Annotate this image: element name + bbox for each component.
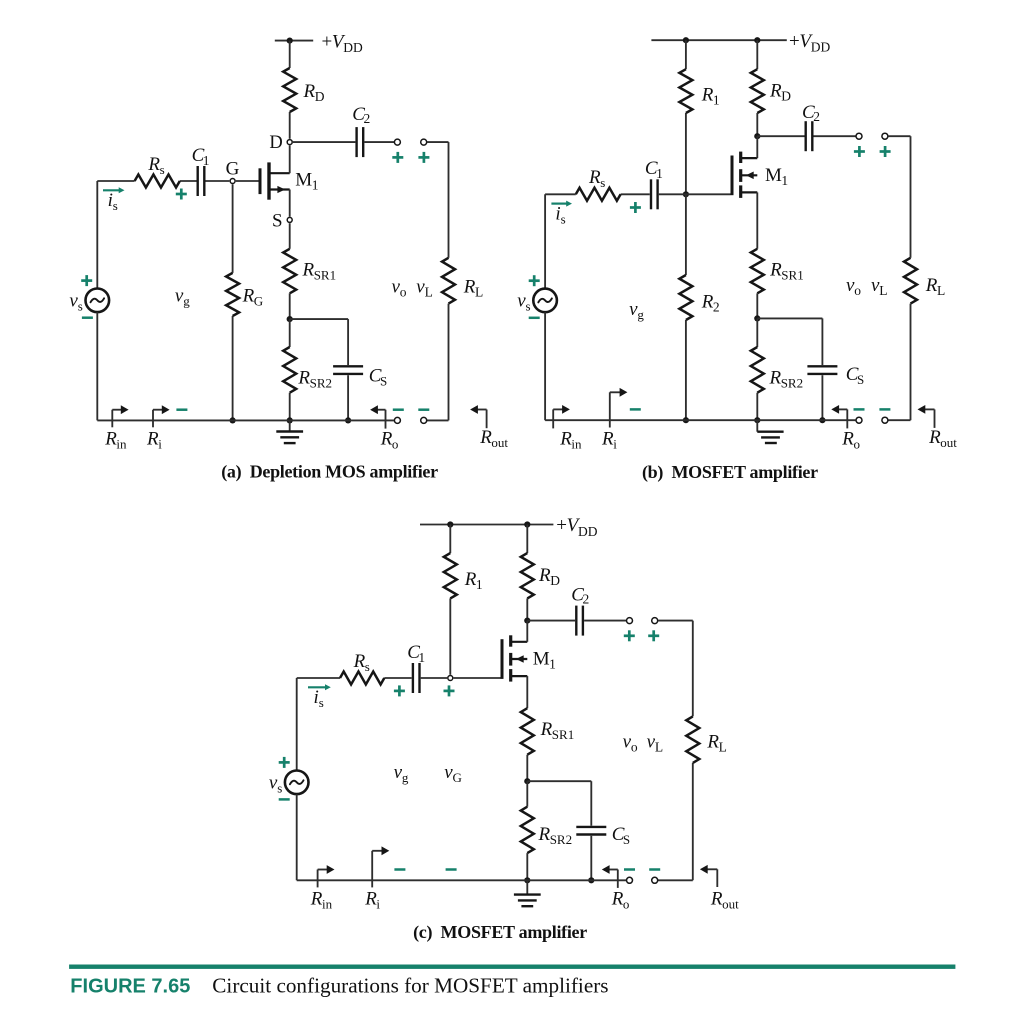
resistor RSR1 (b) (751, 249, 764, 293)
svg-text:2: 2 (583, 592, 590, 607)
label RL (a) (463, 277, 483, 300)
wire: bottom rail (b) (545, 419, 856, 421)
junction dot at ground (a) (287, 417, 293, 423)
wire: left branch down to vs (c) (296, 678, 298, 771)
wire: VDD to RD (a) (289, 41, 291, 68)
label vg (c) (394, 762, 409, 785)
caption (c) (413, 922, 587, 943)
wire: RL to bottom terminal (c) (658, 763, 693, 880)
junction dot RSR1/RSR2/CS (b) (754, 315, 760, 321)
label Rin (a) (104, 428, 127, 451)
wire: junction to RSR2 (a) (289, 319, 291, 347)
svg-text:o: o (400, 285, 407, 300)
wire: node G to RG (a) (232, 184, 234, 273)
plus sign at node vG (c) (444, 685, 455, 696)
label M1 (c) (533, 648, 556, 671)
svg-text:R: R (769, 260, 782, 281)
svg-text:R: R (611, 888, 624, 909)
wire: C2 to output terminal (c) (584, 620, 626, 622)
junction dot R2 bottom (b) (683, 417, 689, 423)
label vg (b) (629, 299, 644, 322)
resistor RL (c) (686, 716, 699, 763)
transistor M1 enhancement MOSFET (b) (732, 152, 757, 198)
wire: vL terminal to RL branch top (a) (427, 142, 449, 258)
wire: vs to bottom rail (a) (96, 312, 98, 420)
svg-text:M: M (765, 165, 782, 186)
label vL (a) (416, 277, 433, 300)
plus sign after C1 (b) (630, 202, 641, 213)
resistor Rs (a) (135, 175, 180, 188)
svg-text:SR2: SR2 (310, 376, 332, 391)
svg-text:s: s (160, 162, 165, 177)
svg-text:g: g (637, 307, 644, 322)
svg-text:D: D (269, 133, 282, 153)
label RSR2 (b) (769, 368, 804, 391)
svg-text:FIGURE 7.65: FIGURE 7.65 (70, 976, 190, 998)
wire: drain node to C2 (c) (527, 620, 575, 622)
svg-text:M: M (295, 170, 312, 191)
wire: junction to RSR2 (b) (756, 318, 758, 347)
svg-text:DD: DD (343, 40, 363, 55)
wire: RG to bottom rail (a) (232, 316, 234, 420)
svg-text:SR2: SR2 (550, 832, 572, 847)
wire: RD to drain node (b) (756, 113, 758, 136)
svg-text:in: in (116, 436, 127, 451)
resistor RL (a) (442, 258, 455, 304)
minus sign mid rail (b) (630, 408, 641, 411)
wire: Rs to C1 (c) (384, 677, 411, 679)
junction dot at +VDD / RD (a) (287, 38, 293, 44)
resistor RD (a) (283, 68, 296, 112)
wire: junction to CS branch (b) (757, 318, 822, 365)
svg-text:i: i (613, 436, 617, 451)
junction dot VDD/RD (b) (754, 37, 760, 43)
svg-text:R: R (538, 565, 551, 586)
measurement arrow Ro (c) (602, 865, 618, 888)
svg-text:s: s (277, 781, 282, 796)
svg-text:S: S (380, 374, 387, 389)
minus sign mid rail left (c) (394, 868, 405, 871)
plus sign after C1 (c) (394, 685, 405, 696)
wire: CS to bottom rail (a) (347, 375, 349, 420)
minus sign at vo bottom (c) (624, 868, 635, 871)
svg-text:Circuit configurations for MOS: Circuit configurations for MOSFET amplif… (212, 974, 608, 998)
plus sign at vo top (b) (854, 146, 865, 157)
label RL (b) (925, 275, 945, 298)
plus sign at vs (b) (529, 275, 540, 286)
wire: RSR1 to junction (a) (289, 293, 291, 319)
resistor R2 (b) (679, 275, 692, 320)
svg-text:G: G (254, 294, 263, 309)
wire: Rs to C1 (a) (180, 180, 197, 182)
svg-text:R: R (928, 427, 941, 448)
wire: C1 to node G (a) (206, 180, 230, 182)
minus sign at vL bottom (a) (418, 408, 429, 411)
label RSR1 (b) (769, 260, 804, 283)
label RD (a) (303, 81, 325, 104)
load terminal vL top (b) (882, 133, 888, 139)
wire: VDD to R1 (c) (449, 525, 451, 554)
label RSR1 (a) (302, 260, 337, 283)
measurement arrow Rin (b) (553, 405, 570, 428)
capacitor C2 (b) (806, 121, 813, 151)
svg-text:D: D (315, 89, 325, 104)
wire: source branch top (c) (297, 677, 340, 679)
label vs (c) (269, 773, 282, 796)
svg-text:1: 1 (418, 650, 425, 665)
plus sign at vL top (a) (418, 152, 429, 163)
label vs (a) (69, 291, 82, 314)
load terminal vL top (c) (652, 618, 658, 624)
minus sign at vL bottom (c) (649, 868, 660, 871)
wire: R1 to gate junction (b) (685, 113, 687, 194)
wire: +VDD supply rail (a) (275, 40, 313, 42)
svg-text:R: R (297, 368, 310, 389)
junction dot gate/R1/R2 (b) (683, 191, 689, 197)
svg-text:R: R (310, 888, 323, 909)
resistor RL (b) (904, 258, 917, 304)
capacitor C1 (a) (198, 166, 205, 196)
svg-text:G: G (226, 158, 240, 179)
label Ro (c) (611, 888, 630, 911)
measurement arrow Rin (a) (112, 405, 128, 427)
load terminal vL bottom (a) (421, 417, 427, 423)
label CS (b) (846, 364, 864, 387)
minus sign at vs (b) (529, 317, 540, 320)
wire: +VDD supply rail (b) (651, 39, 786, 41)
wire: junction to RSR2 (c) (526, 781, 528, 807)
label S (a) (272, 211, 283, 232)
figure caption text (70, 974, 608, 998)
label RD (c) (538, 565, 560, 588)
svg-text:out: out (940, 435, 957, 450)
minus sign at vo bottom (b) (854, 408, 865, 411)
wire: junction to CS branch (c) (527, 781, 591, 826)
measurement arrow Ro (b) (831, 405, 847, 428)
resistor RD (c) (521, 553, 534, 598)
label Rout (a) (479, 427, 508, 450)
output terminal vo top (c) (627, 618, 633, 624)
wire: gate node G to M1 gate (a) (236, 180, 259, 182)
junction dot CS bottom (a) (345, 417, 351, 423)
figure caption rule (69, 965, 955, 969)
label G (a) (226, 158, 240, 179)
svg-text:R: R (380, 428, 393, 449)
label Rs (c) (353, 651, 370, 674)
label Rout (b) (928, 427, 957, 450)
svg-text:in: in (322, 896, 333, 911)
label M1 (a) (295, 170, 318, 193)
capacitor CS (a) (333, 366, 363, 374)
svg-text:s: s (600, 175, 605, 190)
junction dot VDD/R1 (c) (447, 521, 453, 527)
plus sign at vo top (a) (392, 152, 403, 163)
label C2 (b) (802, 102, 820, 124)
svg-text:s: s (561, 211, 566, 226)
wire: VDD to R1 (b) (685, 40, 687, 69)
svg-text:out: out (491, 435, 508, 450)
label vo (c) (623, 732, 638, 755)
svg-text:R: R (701, 292, 714, 313)
svg-text:R: R (364, 888, 377, 909)
svg-text:1: 1 (781, 173, 788, 188)
svg-text:R: R (479, 427, 492, 448)
svg-text:s: s (113, 198, 118, 213)
label vg (a) (175, 286, 190, 309)
svg-text:L: L (719, 740, 727, 755)
ground (a) (276, 420, 303, 443)
wire: VDD to RD (c) (526, 525, 528, 554)
wire: CS to bottom rail (b) (821, 375, 823, 420)
svg-text:R: R (147, 154, 160, 175)
wire: +VDD supply rail (c) (420, 524, 553, 526)
label is (b) (555, 203, 565, 226)
svg-text:R: R (146, 428, 159, 449)
svg-text:1: 1 (203, 153, 210, 168)
wire: left branch down to vs (a) (96, 181, 98, 289)
wire: node S to RSR1 (a) (289, 223, 291, 249)
minus sign at vL bottom (b) (879, 408, 890, 411)
label vo (a) (392, 277, 407, 300)
label Ro (b) (841, 428, 860, 451)
transistor M1 enhancement MOSFET (c) (502, 635, 527, 681)
label Rout (c) (710, 888, 739, 911)
current is arrow (b) (551, 201, 572, 207)
svg-text:R: R (463, 277, 476, 298)
wire: RSR2 to ground junction (b) (756, 393, 758, 421)
measurement arrow Rin (c) (318, 865, 335, 887)
node S (a) (287, 217, 292, 222)
minus sign at vs (a) (82, 316, 93, 319)
label Rs (b) (588, 167, 605, 190)
svg-text:L: L (879, 283, 887, 298)
load terminal vL bottom (c) (652, 877, 658, 883)
junction dot VDD/R1 (b) (683, 37, 689, 43)
wire: RD to drain node (c) (526, 598, 528, 620)
label R1 (b) (701, 85, 720, 108)
svg-text:L: L (655, 740, 663, 755)
node vG open circle (c) (448, 676, 453, 681)
svg-text:1: 1 (312, 178, 319, 193)
wire: bottom rail (a) (97, 419, 394, 421)
svg-text:(a) Depletion MOS amplifier: (a) Depletion MOS amplifier (221, 461, 438, 482)
junction dot CS bottom (c) (588, 877, 594, 883)
label RG (a) (242, 286, 264, 309)
svg-text:out: out (722, 896, 739, 911)
resistor R1 (b) (679, 69, 692, 113)
svg-text:L: L (475, 285, 483, 300)
svg-text:1: 1 (713, 93, 720, 108)
wire: M1 drain to drain node (b) (756, 136, 758, 158)
load terminal vL top (a) (421, 139, 427, 145)
label Ri (a) (146, 428, 162, 451)
junction dot RSR1/RSR2/CS (a) (287, 316, 293, 322)
svg-text:R: R (464, 569, 477, 590)
svg-text:SR1: SR1 (552, 727, 574, 742)
svg-text:s: s (78, 299, 83, 314)
svg-text:2: 2 (813, 109, 820, 124)
junction dot CS bottom (b) (819, 417, 825, 423)
label C1 (a) (192, 145, 210, 168)
label vG (c) (444, 762, 462, 785)
svg-text:1: 1 (656, 166, 663, 181)
label vL (c) (647, 732, 664, 755)
label is (a) (108, 190, 118, 213)
svg-text:R: R (601, 428, 614, 449)
svg-text:i: i (158, 436, 162, 451)
svg-text:R: R (841, 428, 854, 449)
svg-text:L: L (425, 285, 433, 300)
svg-text:R: R (303, 81, 316, 102)
wire: RL to bottom terminal (a) (427, 304, 449, 421)
svg-text:SR2: SR2 (781, 376, 803, 391)
junction dot drain node (c) (524, 618, 530, 624)
capacitor CS (b) (807, 366, 837, 374)
junction dot at ground (c) (524, 877, 530, 883)
measurement arrow Ri (c) (372, 846, 389, 887)
label Rin (c) (310, 888, 333, 911)
measurement arrow Rout (a) (470, 405, 487, 428)
source vs (c) (285, 771, 309, 795)
junction dot drain node (b) (754, 133, 760, 139)
wire: drain node to C2 (b) (757, 135, 804, 137)
wire: bottom rail (c) (297, 879, 627, 881)
svg-text:SR1: SR1 (781, 268, 803, 283)
label C1 (b) (645, 158, 663, 181)
caption (b) (642, 462, 818, 483)
minus sign mid rail right (c) (446, 868, 457, 871)
svg-text:R: R (710, 888, 723, 909)
wire: Rs to C1 (b) (621, 193, 650, 195)
wire: M1 source to node S (a) (289, 190, 291, 217)
current is arrow (c) (308, 684, 331, 690)
svg-text:R: R (353, 651, 366, 672)
output terminal vo bottom (a) (394, 417, 400, 423)
capacitor C1 (c) (413, 663, 420, 693)
minus sign at vo bottom (a) (393, 408, 404, 411)
label vs (b) (517, 291, 530, 314)
svg-text:DD: DD (578, 524, 598, 539)
wire: vL terminal to RL top (b) (888, 136, 910, 258)
svg-text:R: R (559, 428, 572, 449)
resistor RSR1 (a) (283, 249, 296, 293)
wire: junction to R2 (b) (685, 194, 687, 275)
svg-text:(b) MOSFET amplifier: (b) MOSFET amplifier (642, 462, 818, 483)
output terminal vo top (b) (856, 133, 862, 139)
wire: RSR1 to junction (b) (756, 293, 758, 318)
svg-text:S: S (623, 832, 630, 847)
label +VDD (b) (789, 31, 831, 55)
svg-text:o: o (854, 436, 861, 451)
wire: RL to bottom terminal (b) (888, 304, 910, 421)
label RL (c) (706, 732, 726, 755)
plus sign after C1 (a) (176, 189, 187, 200)
svg-text:1: 1 (549, 656, 556, 671)
wire: CS to bottom rail (c) (590, 836, 592, 881)
label Rs (a) (147, 154, 164, 177)
source vs (b) (533, 289, 557, 313)
junction dot at ground (b) (754, 417, 760, 423)
label RSR2 (a) (297, 368, 332, 391)
wire: RSR2 to ground junction (a) (289, 393, 291, 421)
transistor M1 depletion MOSFET (a) (260, 162, 290, 199)
wire: gate junction to M1 gate (b) (686, 193, 731, 195)
label vL (b) (871, 275, 888, 298)
svg-text:R: R (104, 428, 117, 449)
resistor R1 (c) (444, 553, 457, 598)
wire: junction to CS branch (a) (290, 319, 348, 365)
svg-text:R: R (588, 167, 601, 188)
label R2 (b) (701, 292, 720, 315)
node D (a) (287, 140, 292, 145)
svg-text:o: o (623, 896, 630, 911)
junction dot RG bottom (a) (230, 417, 236, 423)
svg-text:R: R (925, 275, 938, 296)
label C2 (c) (571, 584, 589, 606)
svg-text:S: S (272, 211, 283, 232)
capacitor C1 (b) (651, 179, 658, 209)
svg-text:2: 2 (713, 300, 720, 315)
svg-text:R: R (706, 732, 719, 753)
output terminal vo bottom (c) (627, 877, 633, 883)
output terminal vo bottom (b) (856, 417, 862, 423)
capacitor CS (c) (576, 827, 606, 835)
svg-text:D: D (781, 89, 791, 104)
wire: R2 to bottom rail (b) (685, 320, 687, 420)
wire: M1 source down to RSR1 (b) (756, 192, 758, 248)
label M1 (b) (765, 165, 788, 188)
svg-text:DD: DD (811, 40, 831, 55)
label RSR2 (c) (538, 824, 573, 847)
minus sign at vs (c) (279, 798, 290, 801)
wire: vL terminal to RL top (c) (658, 621, 693, 717)
svg-text:R: R (540, 719, 553, 740)
svg-text:2: 2 (364, 111, 371, 126)
measurement arrow Rout (b) (918, 405, 935, 428)
wire: RSR2 to ground junction (c) (526, 853, 528, 880)
capacitor C2 (c) (576, 606, 583, 636)
label Ri (c) (364, 888, 380, 911)
current is arrow (a) (103, 187, 125, 193)
svg-text:(c) MOSFET amplifier: (c) MOSFET amplifier (413, 922, 587, 943)
label RD (b) (769, 81, 791, 104)
wire: left branch down to vs (b) (544, 194, 546, 288)
wire: R1 down to node vG (c) (449, 598, 451, 674)
capacitor C2 (a) (357, 127, 364, 157)
plus sign at vs (c) (279, 757, 290, 768)
measurement arrow Ri (a) (153, 405, 170, 427)
svg-text:D: D (550, 573, 560, 588)
svg-text:R: R (769, 368, 782, 389)
plus sign at vL top (c) (648, 630, 659, 641)
svg-text:L: L (937, 283, 945, 298)
measurement arrow Rout (c) (700, 865, 717, 887)
svg-text:S: S (857, 372, 864, 387)
label Ri (b) (601, 428, 617, 451)
resistor Rs (b) (576, 188, 621, 201)
svg-text:R: R (538, 824, 551, 845)
resistor RSR2 (a) (283, 347, 296, 393)
svg-text:o: o (392, 436, 399, 451)
svg-text:+: + (789, 31, 800, 52)
svg-text:o: o (631, 740, 638, 755)
junction dot RSR1/RSR2/CS (c) (524, 778, 530, 784)
label is (c) (314, 687, 324, 710)
label +VDD (a) (322, 31, 364, 55)
label +VDD (c) (556, 515, 598, 539)
svg-text:R: R (701, 85, 714, 106)
svg-text:+: + (322, 31, 333, 52)
